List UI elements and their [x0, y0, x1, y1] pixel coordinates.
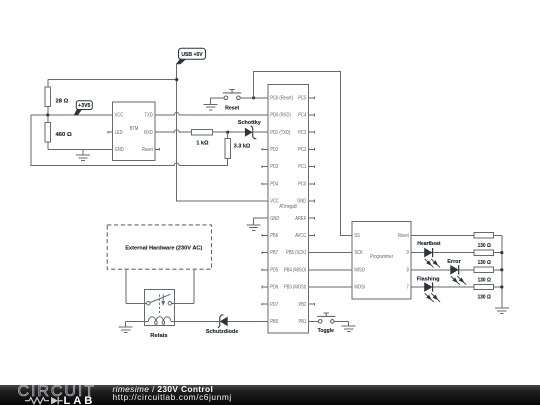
wire: Toggle to ground — [334, 320, 349, 322]
pin stub: ATmega8 right PB5 (SCK) — [309, 252, 315, 254]
svg-text:Schutzdiode: Schutzdiode — [206, 329, 238, 335]
pushbutton Toggle — [317, 313, 335, 323]
pin stub: ATmega8 right PC3 — [309, 131, 315, 134]
wire: Programmer pin 9 to Heartbeat LED — [411, 252, 425, 254]
svg-text:7: 7 — [407, 285, 409, 291]
LED Error — [451, 265, 459, 274]
relay K1 Relais — [145, 290, 175, 326]
wire: Schutzdiode to relay coil — [174, 320, 220, 322]
LED Heartbeat — [425, 248, 433, 257]
wire: PB3 (MOSI) to Programmer MOSI — [315, 286, 353, 288]
svg-text:PD6: PD6 — [270, 285, 278, 291]
pin stub: ATmega8 right PB4 (MISO) — [309, 269, 315, 271]
svg-text:130 Ω: 130 Ω — [478, 277, 492, 283]
pin stub: ATmega8 left PD7 — [262, 303, 268, 306]
svg-text:460 Ω: 460 Ω — [56, 132, 73, 138]
pin stub: ATmega8 left PD0 (RXD) — [262, 114, 268, 116]
pin stub: ATmega8 right GND — [309, 200, 315, 203]
ground at BTM — [76, 149, 90, 160]
pin stub: ATmega8 left PB0 — [262, 320, 268, 322]
svg-text:28 Ω: 28 Ω — [56, 98, 69, 104]
LED Error emission arrows — [451, 276, 466, 285]
ground at relay — [119, 321, 133, 332]
wire: hop over +5V line on RXD net — [173, 130, 180, 133]
LED Flashing emission arrows — [425, 293, 440, 302]
svg-text:SS: SS — [354, 233, 360, 239]
svg-text:9: 9 — [407, 250, 409, 256]
svg-text:PC2: PC2 — [298, 147, 306, 153]
svg-text:MOSI: MOSI — [354, 285, 365, 291]
svg-text:Error: Error — [447, 259, 461, 265]
wire: leads of resistor 460Ω — [47, 115, 49, 149]
wire: PB0 to Schutzdiode — [227, 320, 262, 322]
pin stub: ATmega8 left PD3 — [262, 165, 268, 168]
wire: RXD net to 1kΩ — [179, 131, 191, 133]
svg-text:GND: GND — [115, 147, 124, 153]
junction: rail row 7 — [500, 285, 503, 288]
wire: resistor to LED ground rail — [494, 234, 502, 236]
pin stub: ATmega8 left PC6 (Reset) — [262, 97, 268, 99]
diode D2 Schutzdiode — [206, 315, 238, 335]
svg-text:PC1: PC1 — [298, 164, 306, 170]
junction: divider node 1kΩ/3.3kΩ — [226, 131, 229, 134]
svg-text:LED: LED — [115, 130, 123, 136]
wire: Programmer pin 8 to Error LED — [411, 269, 451, 271]
pin stub: ATmega8 right PC5 — [309, 97, 315, 100]
wire: hop over +5V line — [173, 163, 180, 165]
svg-text:Reset: Reset — [142, 147, 153, 153]
svg-text:PB2: PB2 — [299, 302, 307, 308]
svg-text:RXD: RXD — [144, 130, 153, 136]
ground at Toggle — [342, 321, 356, 331]
wire: BTM TXD toward PD0 (RXD) — [155, 114, 174, 116]
svg-text:GND: GND — [270, 216, 279, 222]
svg-text:PB5 (SCK): PB5 (SCK) — [286, 250, 306, 256]
svg-text:PD4: PD4 — [270, 181, 278, 187]
svg-text:PB4 (MISO): PB4 (MISO) — [284, 267, 306, 273]
wire: +3V5 rail to BTM VCC — [31, 114, 112, 116]
pin stub: BTM LED — [108, 131, 113, 134]
pin stub: ATmega8 left PD2 — [262, 148, 268, 151]
svg-text:PC6 (Reset): PC6 (Reset) — [270, 95, 293, 101]
svg-text:External Hardware (230V AC): External Hardware (230V AC) — [125, 246, 202, 252]
wire: ground line 460Ω to BTM GND — [48, 148, 113, 150]
wire: Reset button to PC6 (Reset) — [240, 97, 262, 99]
block: External Hardware (230V AC) — [107, 225, 211, 269]
pin stub: ATmega8 left PB7 — [262, 251, 268, 254]
wire: 1kΩ to Schottky anode — [213, 131, 245, 133]
svg-text:PB7: PB7 — [270, 250, 278, 256]
svg-text:VCC: VCC — [115, 113, 124, 119]
svg-text:GND: GND — [297, 199, 306, 205]
svg-text:130 Ω: 130 Ω — [478, 243, 492, 249]
svg-text:PC0: PC0 — [298, 181, 306, 187]
wire: reset net over to Programmer SS — [254, 71, 353, 235]
svg-text:130 Ω: 130 Ω — [478, 295, 492, 301]
svg-text:MISO: MISO — [354, 267, 365, 273]
wire: leads of resistor 28Ω — [47, 80, 49, 115]
svg-text:Heartbeat: Heartbeat — [417, 241, 440, 247]
wire: PB1 to Toggle button — [315, 320, 319, 322]
wire: resistor to rail — [494, 269, 502, 271]
resistor R 130 Ω (heartbeat row) — [474, 250, 493, 255]
pin stub: ATmega8 left VCC — [262, 200, 268, 202]
junction: rail row 8 — [500, 268, 503, 271]
CircuitLab logo — [18, 384, 97, 399]
resistor R 130 Ω (error row) — [474, 267, 493, 272]
wire: Flashing LED to resistor — [433, 286, 474, 288]
pin stub: ATmega8 left GND — [262, 217, 268, 219]
svg-text:8: 8 — [407, 267, 409, 273]
wire: Programmer pin 7 to Flashing LED — [411, 286, 425, 288]
svg-text:AREF: AREF — [295, 216, 307, 222]
LED Heartbeat emission arrows — [425, 259, 440, 268]
svg-text:PD7: PD7 — [270, 302, 278, 308]
diode D1 Schottky — [238, 120, 262, 139]
wire: USB +5V net down to ATmega8 VCC pin — [177, 63, 262, 201]
ground at Reset button — [204, 98, 218, 110]
svg-text:AVCC: AVCC — [295, 233, 306, 239]
footer bar — [0, 385, 540, 405]
resistor 1 kΩ — [191, 130, 212, 135]
svg-text:TXD: TXD — [145, 113, 153, 119]
svg-text:VCC: VCC — [270, 199, 279, 205]
IC U3 Programmer — [352, 222, 411, 299]
wire: Schottky cathode to PD1 (TXD) — [253, 131, 262, 133]
svg-text:PD2: PD2 — [270, 147, 278, 153]
ground at LED rail — [495, 302, 509, 313]
power flag +3V5 — [74, 101, 92, 115]
wire: relay coil to ground — [126, 320, 145, 322]
wire: Heartbeat LED to resistor — [433, 252, 474, 254]
wire: Programmer Reset to resistor — [411, 234, 474, 236]
pin stub: ATmega8 left PD1 (TXD) — [262, 131, 268, 133]
svg-text:Toggle: Toggle — [318, 328, 334, 334]
wire: PB4 (MISO) to Programmer MISO — [315, 269, 353, 271]
pin stub: BTM Reset — [155, 148, 160, 151]
pin stub: ATmega8 right PC1 — [309, 165, 315, 168]
svg-text:PB3 (MOSI): PB3 (MOSI) — [284, 285, 306, 291]
wire: resistor to rail — [494, 252, 502, 254]
pin stub: ATmega8 right AVCC — [309, 234, 315, 237]
pin stub: ATmega8 left PD4 — [262, 183, 268, 186]
svg-text:PB1: PB1 — [299, 319, 307, 325]
svg-text:130 Ω: 130 Ω — [478, 260, 492, 266]
svg-text:3.3 kΩ: 3.3 kΩ — [234, 143, 251, 149]
wire: BTM RXD toward 1kΩ — [155, 131, 174, 133]
wire: leads of resistor 3.3 kΩ — [227, 132, 229, 165]
svg-text:ATmega8: ATmega8 — [279, 204, 297, 210]
wire: ground to Reset button — [211, 97, 224, 99]
wire: +5V top rail from R(28) to USB node — [48, 79, 177, 81]
svg-text:1 kΩ: 1 kΩ — [196, 140, 209, 146]
pin stub: ATmega8 left PB6 — [262, 234, 268, 237]
IC U2 BTM bluetooth module — [112, 102, 155, 161]
pin stub: ATmega8 left PD5 — [262, 269, 268, 272]
pushbutton Reset — [223, 90, 241, 100]
svg-text:SCK: SCK — [354, 250, 363, 256]
resistor R 130 Ω (flashing row) — [474, 284, 493, 289]
IC U1 ATmega8 — [268, 85, 309, 333]
pin stub: ATmega8 right PC2 — [309, 148, 315, 151]
wire: PB5 (SCK) to Programmer SCK — [315, 252, 353, 254]
svg-text:PD1 (TXD): PD1 (TXD) — [270, 130, 290, 136]
pin stub: ATmega8 right PC0 — [309, 183, 315, 186]
wire: +3V5 return loop left/bottom — [31, 115, 174, 166]
pin stub: ATmega8 right AREF — [309, 217, 315, 220]
pin stub: ATmega8 right PB3 (MOSI) — [309, 286, 315, 288]
junction: USB +5V node on top rail — [175, 78, 178, 81]
svg-text:BTM: BTM — [130, 126, 139, 132]
junction: rail row 9 — [500, 251, 503, 254]
pin stub: ATmega8 right PB2 — [309, 303, 315, 306]
svg-text:PC5: PC5 — [298, 95, 306, 101]
LED Flashing — [425, 282, 433, 291]
svg-text:Relais: Relais — [150, 333, 167, 339]
wire: hop over +5V line on TXD net — [173, 113, 180, 116]
wire: ATmega8 GND to ground — [254, 217, 262, 219]
resistor R 130 Ω (reset row) — [474, 233, 493, 238]
resistor 28 Ω — [45, 87, 51, 107]
svg-text:PB6: PB6 — [270, 233, 278, 239]
power flag USB +5V — [177, 48, 206, 64]
wire: relay contact right to external hardware — [172, 269, 194, 303]
svg-text:PB0: PB0 — [270, 319, 278, 325]
resistor 3.3 kΩ — [225, 139, 231, 159]
wire: Error LED to resistor — [459, 269, 474, 271]
junction: +3V5 node at resistor divider — [46, 113, 49, 116]
junction: reset net — [252, 96, 255, 99]
svg-text:USB +5V: USB +5V — [181, 52, 203, 58]
svg-text:PD5: PD5 — [270, 267, 278, 273]
ground at ATmega8 GND — [247, 218, 261, 230]
svg-text:+3V5: +3V5 — [78, 103, 90, 109]
resistor 460 Ω — [45, 122, 51, 142]
svg-text:PD3: PD3 — [270, 164, 278, 170]
pin stub: ATmega8 left PD6 — [262, 286, 268, 289]
svg-text:PC4: PC4 — [298, 113, 306, 119]
wire: LED common rail to ground — [501, 235, 503, 308]
pin stub: ATmega8 right PB1 — [309, 320, 315, 322]
wire: bottom rail to 3.3kΩ bottom — [179, 160, 228, 166]
svg-text:Reset: Reset — [398, 233, 409, 239]
wire: relay contact left to external hardware — [126, 269, 147, 303]
svg-text:PD0 (RXD): PD0 (RXD) — [270, 113, 291, 119]
svg-text:Reset: Reset — [225, 105, 239, 111]
svg-text:Programmer: Programmer — [370, 254, 393, 260]
pin stub: ATmega8 right PC4 — [309, 114, 315, 117]
wire: resistor to rail — [494, 286, 502, 288]
svg-text:Schottky: Schottky — [238, 120, 262, 126]
wire: TXD net to PD0 (RXD) pin — [179, 114, 262, 116]
svg-text:Flashing: Flashing — [417, 276, 440, 282]
svg-text:PC3: PC3 — [298, 130, 306, 136]
